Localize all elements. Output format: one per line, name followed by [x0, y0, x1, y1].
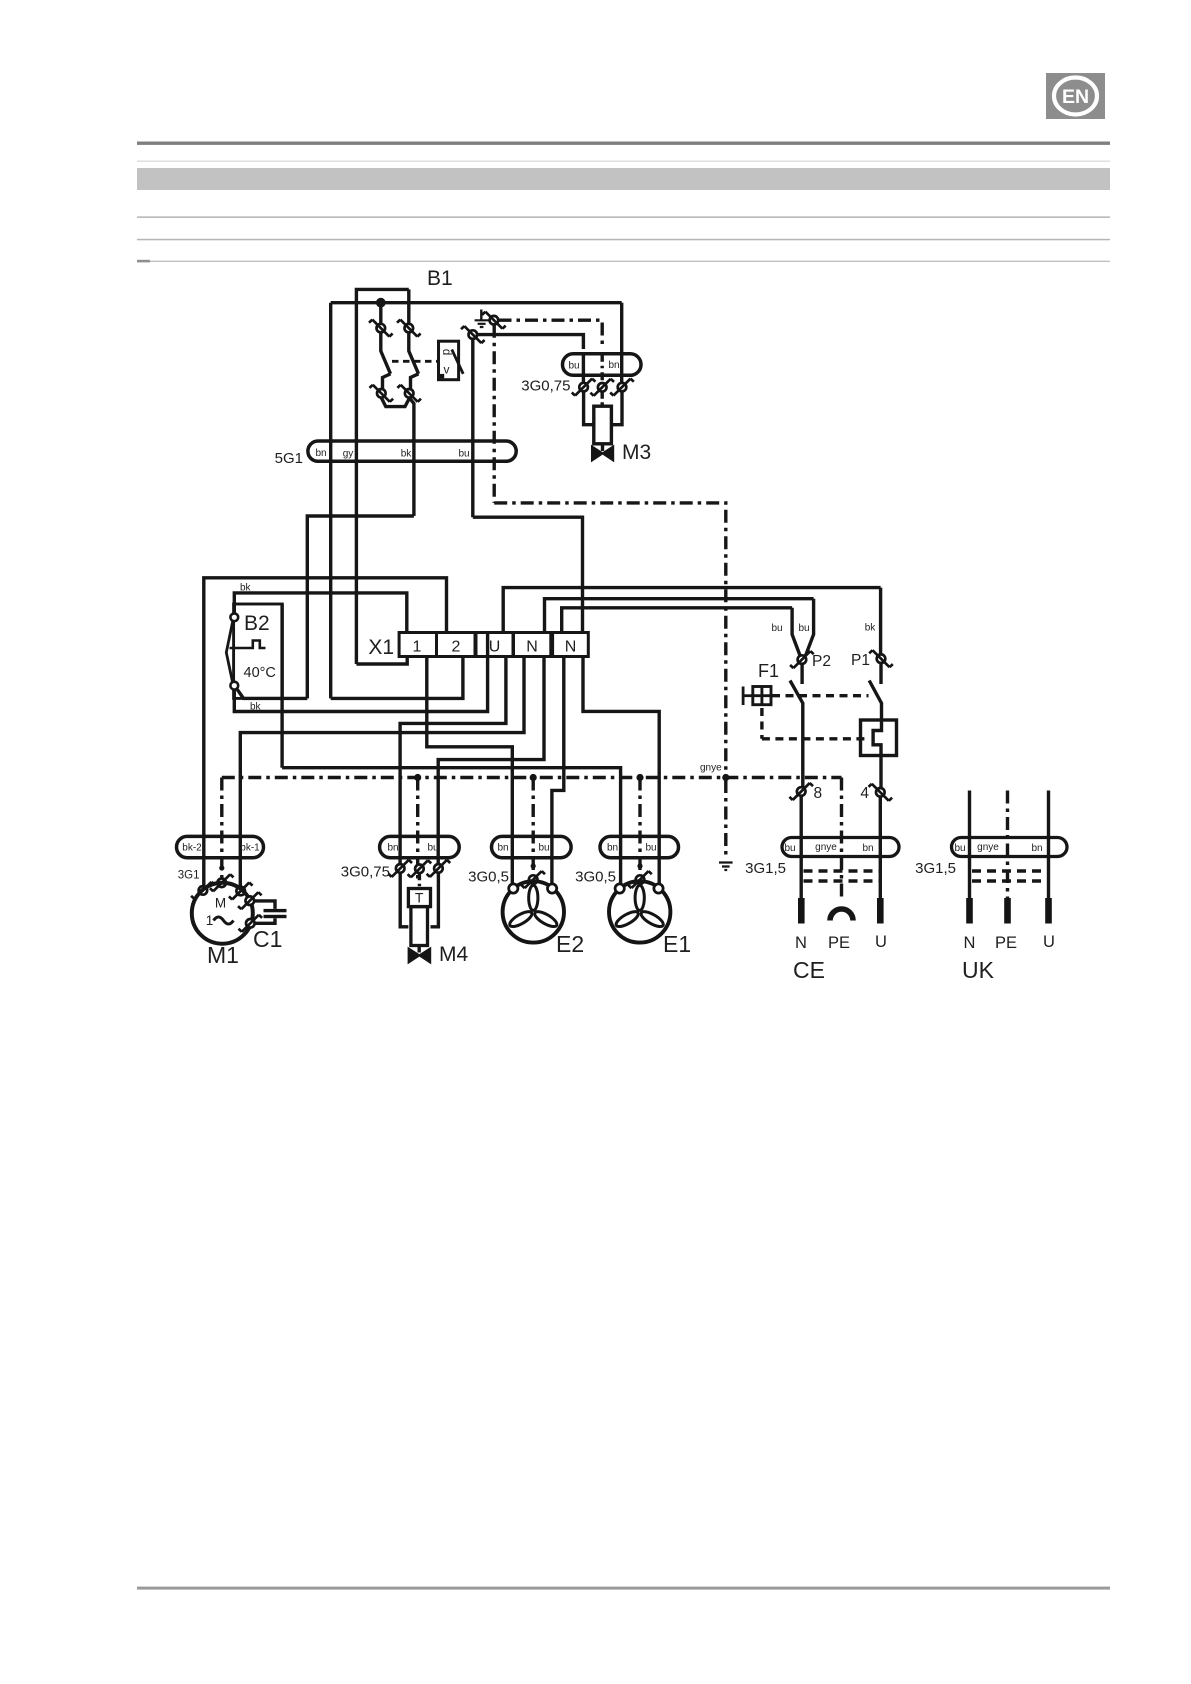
svg-text:bn: bn: [607, 843, 618, 854]
svg-text:N: N: [526, 639, 538, 656]
svg-text:3G1: 3G1: [178, 870, 200, 882]
svg-text:2: 2: [452, 639, 461, 656]
svg-text:3G1,5: 3G1,5: [745, 860, 786, 877]
svg-text:B2: B2: [244, 612, 270, 635]
svg-text:M3: M3: [622, 441, 651, 464]
svg-text:E2: E2: [556, 931, 584, 957]
svg-text:P1: P1: [851, 652, 870, 669]
svg-text:P2: P2: [812, 653, 831, 670]
svg-text:4: 4: [860, 785, 869, 802]
svg-text:bk: bk: [250, 702, 262, 713]
svg-text:U: U: [875, 933, 887, 951]
svg-text:3G0,5: 3G0,5: [468, 869, 509, 886]
svg-text:M: M: [215, 896, 226, 911]
svg-text:p: p: [441, 349, 453, 355]
svg-text:3G0,75: 3G0,75: [341, 864, 390, 881]
svg-text:bu: bu: [645, 843, 656, 854]
svg-text:F1: F1: [758, 661, 779, 681]
svg-text:bu: bu: [427, 843, 438, 854]
svg-text:1: 1: [206, 913, 214, 928]
svg-text:bk: bk: [240, 583, 252, 594]
svg-text:N: N: [964, 934, 976, 952]
svg-text:bn: bn: [608, 360, 619, 371]
svg-text:bn: bn: [497, 843, 508, 854]
svg-text:bn: bn: [315, 448, 326, 459]
svg-text:8: 8: [814, 785, 823, 802]
svg-text:U: U: [489, 639, 501, 656]
svg-text:v: v: [444, 363, 450, 377]
svg-text:bu: bu: [784, 843, 795, 854]
svg-text:bn: bn: [1031, 843, 1042, 854]
svg-text:40°C: 40°C: [244, 665, 276, 681]
svg-text:gnye: gnye: [700, 763, 722, 774]
svg-text:bu: bu: [568, 361, 579, 372]
svg-text:B1: B1: [427, 267, 453, 290]
svg-text:M1: M1: [207, 942, 239, 968]
svg-text:bu: bu: [954, 843, 965, 854]
svg-text:E1: E1: [663, 931, 691, 957]
svg-text:bk-1: bk-1: [240, 843, 260, 854]
svg-text:3G0,5: 3G0,5: [575, 869, 616, 886]
svg-text:bn: bn: [862, 843, 873, 854]
svg-text:N: N: [795, 934, 807, 952]
svg-text:CE: CE: [793, 957, 825, 983]
svg-text:T: T: [415, 890, 424, 906]
svg-text:N: N: [565, 639, 577, 656]
svg-text:3G1,5: 3G1,5: [915, 860, 956, 877]
svg-text:bu: bu: [798, 623, 809, 634]
svg-text:bn: bn: [387, 843, 398, 854]
svg-text:EN: EN: [1062, 86, 1089, 108]
svg-text:3G0,75: 3G0,75: [521, 378, 570, 395]
svg-text:1: 1: [413, 639, 422, 656]
svg-text:X1: X1: [368, 636, 394, 659]
svg-text:M4: M4: [439, 943, 468, 966]
svg-text:C1: C1: [253, 926, 282, 952]
svg-text:UK: UK: [962, 957, 995, 983]
svg-text:bu: bu: [771, 623, 782, 634]
svg-text:gnye: gnye: [815, 842, 837, 853]
svg-text:bu: bu: [458, 449, 469, 460]
svg-text:bu: bu: [538, 843, 549, 854]
svg-text:PE: PE: [828, 934, 850, 952]
svg-text:PE: PE: [995, 934, 1017, 952]
svg-text:bk: bk: [865, 623, 877, 634]
svg-text:5G1: 5G1: [275, 450, 303, 467]
svg-text:gy: gy: [343, 449, 354, 460]
svg-text:U: U: [1043, 933, 1055, 951]
svg-text:bk-2: bk-2: [182, 843, 202, 854]
svg-text:bk: bk: [401, 449, 413, 460]
svg-text:gnye: gnye: [977, 842, 999, 853]
